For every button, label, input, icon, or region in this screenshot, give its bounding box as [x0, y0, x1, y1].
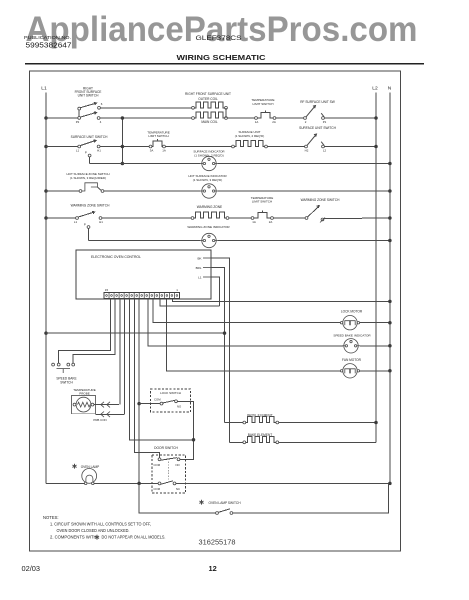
wire broil to L2: [279, 422, 376, 424]
svg-text:OUTER COIL: OUTER COIL: [198, 97, 218, 101]
svg-text:L1: L1: [74, 220, 78, 224]
svg-text:SPEED BAKE INDICATOR: SPEED BAKE INDICATOR: [333, 333, 371, 337]
wire lamp rail a: [46, 482, 86, 484]
svg-text:PROBE: PROBE: [79, 392, 90, 396]
schematic border: [30, 71, 401, 551]
svg-text:NC: NC: [176, 487, 180, 491]
svg-text:MAIN COIL: MAIN COIL: [201, 120, 218, 124]
wire pin4 to probe connector: [124, 299, 126, 415]
junction rail4-N: [388, 189, 392, 193]
bus L1 vertical wire: [45, 93, 47, 484]
switch oven lamp: [216, 512, 219, 515]
svg-text:H1: H1: [97, 148, 101, 152]
wire pin9 to speed bake indicator: [148, 299, 343, 346]
wire lock feed: [139, 403, 160, 405]
junction lamprail-pin7: [137, 482, 141, 486]
wire lamp rail b: [94, 482, 158, 484]
junction L1-rail5: [44, 216, 48, 220]
svg-text:COM: COM: [154, 397, 161, 401]
svg-text:RF SURFACE UNIT SW: RF SURFACE UNIT SW: [300, 100, 334, 104]
svg-text:L2: L2: [323, 148, 327, 152]
svg-text:DO NOT APPEAR ON ALL MODELS.: DO NOT APPEAR ON ALL MODELS.: [102, 534, 166, 539]
wire pin3 to probe: [119, 299, 121, 405]
wire pin6 to door switch COM: [134, 299, 159, 458]
lock switch box: [151, 389, 191, 412]
wire L1 output: [211, 277, 220, 306]
junction speedbake-N: [388, 344, 392, 348]
door switch link: [168, 462, 170, 481]
wire lamp switch row a: [139, 483, 216, 513]
indicator warming zone: [200, 240, 202, 242]
svg-text:1. CIRCUIT SHOWN WITH ALL CON: 1. CIRCUIT SHOWN WITH ALL CONTROLS SET T…: [50, 521, 151, 526]
wire pin7 to lock and lamp: [138, 299, 140, 514]
svg-text:(1 SHOWN, 3 REQ'D): (1 SHOWN, 3 REQ'D): [193, 178, 222, 182]
svg-text:WARMING ZONE INDICATOR: WARMING ZONE INDICATOR: [187, 225, 230, 229]
junction lamprail-N: [388, 482, 392, 486]
svg-text:LIMIT SWITCH: LIMIT SWITCH: [252, 199, 272, 203]
wire pin15 to N: [173, 299, 390, 302]
svg-text:2A: 2A: [269, 220, 273, 224]
svg-text:COM: COM: [154, 463, 161, 467]
junction L1-rail1: [44, 116, 48, 120]
svg-text:12: 12: [209, 564, 217, 573]
svg-text:P2: P2: [76, 120, 80, 124]
resistor probe: [73, 403, 76, 406]
wire rail2 e: [324, 146, 376, 148]
wire rail1 a: [46, 117, 79, 119]
probe housing: [72, 396, 96, 414]
wire rail1 d: [276, 117, 305, 119]
svg-text:316255178: 316255178: [199, 539, 236, 546]
svg-text:WARMING ZONE SWITCH: WARMING ZONE SWITCH: [71, 203, 111, 207]
svg-text:N: N: [388, 86, 392, 92]
wire rail5 b: [102, 217, 193, 219]
wire pin13 to fan motor: [167, 299, 342, 371]
bus N vertical wire: [389, 93, 391, 484]
switch lock: [160, 402, 163, 405]
wire probe out: [94, 404, 119, 406]
motor lock: [343, 316, 357, 330]
wire pin10 to lock motor: [153, 299, 341, 323]
svg-text:H1: H1: [99, 220, 103, 224]
svg-text:15: 15: [105, 288, 109, 292]
wire speed bake to N: [360, 345, 390, 347]
wire rail1 e: [324, 117, 376, 119]
wire rail2 b: [100, 146, 151, 148]
junction L1-midrail: [44, 331, 48, 335]
indicator speed bake: [342, 345, 344, 347]
connector strip P1: [104, 293, 180, 299]
svg-text:NOTES:: NOTES:: [43, 515, 59, 520]
wire BK output: [211, 258, 229, 442]
wire pole drop rail5: [88, 228, 90, 240]
title underline: [25, 63, 424, 65]
motor fan: [343, 364, 357, 378]
wire pin14 short row: [160, 299, 220, 306]
svg-text:OVEN DOOR CLOSED AND UNLOCKED.: OVEN DOOR CLOSED AND UNLOCKED.: [57, 528, 130, 533]
switch surface unit right: [305, 145, 308, 148]
switch warming zone right: [305, 217, 308, 220]
wire rail4 c: [218, 190, 390, 192]
wire indrow a: [89, 240, 201, 242]
svg-text:RIGHT FRONT SURFACE UNIT: RIGHT FRONT SURFACE UNIT: [185, 92, 231, 96]
thermal switch rail2: [149, 145, 152, 148]
junction fan-N: [388, 369, 392, 373]
svg-text:PRB CON: PRB CON: [93, 418, 106, 422]
wire rail1 c: [227, 117, 256, 119]
indicator hot surface: [200, 190, 202, 192]
wire BRL output: [211, 268, 225, 423]
junction lockmotor-N: [388, 321, 392, 325]
resistor bake element: [243, 441, 246, 444]
wire outer-coil branch: [100, 107, 193, 109]
junction tie-rail1: [121, 116, 125, 120]
wire fan motor to N: [359, 370, 390, 372]
junction pin15-N: [388, 300, 392, 304]
wire lamp switch row b: [233, 483, 389, 513]
svg-text:OVEN LAMP: OVEN LAMP: [81, 465, 100, 469]
svg-text:3A: 3A: [150, 148, 154, 152]
switch door upper: [158, 458, 161, 461]
svg-text:COM: COM: [154, 487, 161, 491]
svg-text:GLEF378CS: GLEF378CS: [196, 36, 242, 42]
resistor broil element: [243, 421, 246, 424]
label oven lamp: [74, 464, 76, 469]
svg-text:L2: L2: [372, 86, 378, 92]
svg-text:UNIT SWITCH: UNIT SWITCH: [78, 94, 100, 98]
wire indrow b: [218, 240, 390, 242]
wire rail5 a: [46, 217, 77, 219]
wire pin5 to door switch NO: [130, 299, 194, 460]
lamp oven: [82, 469, 97, 484]
junction broil-L2: [374, 421, 378, 425]
switch door lower: [158, 482, 161, 485]
label oven lamp switch: [201, 500, 203, 505]
svg-text:FAN MOTOR: FAN MOTOR: [342, 358, 362, 362]
switch surface unit left: [78, 145, 81, 148]
svg-text:LIMIT SWITCH: LIMIT SWITCH: [148, 134, 168, 138]
switch warming zone left: [76, 217, 79, 220]
svg-text:5995382647: 5995382647: [26, 41, 72, 50]
wire rail5 d: [273, 217, 306, 219]
wire lock motor to N: [359, 322, 390, 324]
svg-text:(1 SHOWN, 2 REQ'D): (1 SHOWN, 2 REQ'D): [235, 134, 264, 138]
svg-text:(1 SHOWN, 3 REQUIRED): (1 SHOWN, 3 REQUIRED): [70, 176, 106, 180]
svg-text:1A: 1A: [162, 148, 166, 152]
wire rail5 c: [229, 217, 253, 219]
junction rail1-L2: [374, 116, 378, 120]
svg-text:L1: L1: [41, 86, 47, 92]
wire pin1 to speed bake switch: [59, 299, 111, 364]
wire rail5 e: [324, 217, 390, 220]
svg-text:1A: 1A: [252, 220, 256, 224]
wire lamp rail c: [176, 482, 390, 484]
connector probe wire: [101, 402, 104, 408]
svg-text:SURFACE UNIT SWITCH: SURFACE UNIT SWITCH: [71, 135, 108, 139]
svg-text:P: P: [84, 222, 86, 226]
thermal switch rail5: [251, 217, 254, 220]
svg-text:1A: 1A: [255, 120, 259, 124]
junction indrow-N: [388, 239, 392, 243]
resistor outer coil: [192, 106, 195, 109]
wire bake to L2: [279, 441, 376, 443]
svg-text:L1: L1: [198, 275, 202, 279]
electronic oven control box: [76, 250, 211, 299]
wire rail1 b: [100, 117, 193, 119]
wire bake feed: [229, 441, 243, 443]
svg-text:2. COMPONENTS WITH: 2. COMPONENTS WITH: [50, 534, 97, 539]
wire rail4 b: [104, 190, 200, 192]
door switch box: [152, 455, 186, 493]
wire coil join: [225, 108, 227, 118]
wire rail4 a: [46, 190, 81, 192]
switch hot surface zone: [79, 190, 82, 193]
svg-text:LOCK SWITCH: LOCK SWITCH: [160, 391, 181, 395]
svg-text:ELECTRONIC OVEN CONTROL: ELECTRONIC OVEN CONTROL: [91, 255, 141, 259]
svg-text:P: P: [85, 151, 87, 155]
svg-text:OVEN LAMP SWITCH: OVEN LAMP SWITCH: [209, 501, 242, 505]
junction midrail-BRL: [223, 331, 227, 335]
wire lock NO out: [177, 401, 193, 440]
resistor warming zone: [191, 217, 194, 220]
wire probe connector out: [96, 413, 124, 415]
switch right front surface unit (2 pole): [78, 107, 81, 110]
svg-text:AppliancePartsPros.com: AppliancePartsPros.com: [26, 10, 418, 49]
junction rail5-N: [388, 216, 392, 220]
junction tie-rail2: [121, 145, 125, 149]
wire pole drop rail2: [89, 157, 91, 164]
wire rail3 a: [90, 163, 200, 165]
junction L1-rail2: [44, 145, 48, 149]
indicator surface: [200, 163, 202, 165]
switch RF surface unit: [304, 117, 307, 120]
svg-text:H2: H2: [305, 148, 309, 152]
wire rail3 b: [218, 163, 390, 165]
svg-text:P1: P1: [323, 120, 327, 124]
bus L2 vertical wire: [375, 93, 377, 443]
junction L1-rail4: [44, 189, 48, 193]
switch speed bake: [52, 363, 55, 366]
svg-text:BRL: BRL: [196, 266, 202, 270]
junction tie-rail3: [121, 162, 125, 166]
resistor surface unit: [232, 145, 235, 148]
svg-text:WARMING ZONE SWITCH: WARMING ZONE SWITCH: [301, 198, 341, 202]
junction lockout-doorbracket: [192, 438, 196, 442]
wire pin2 to speed bake switch: [73, 299, 115, 364]
svg-text:WIRING SCHEMATIC: WIRING SCHEMATIC: [177, 55, 266, 62]
wire rail2 a: [46, 146, 79, 148]
svg-text:02/03: 02/03: [22, 564, 41, 573]
wire rail2 c: [165, 146, 233, 148]
svg-text:SURFACE UNIT SWITCH: SURFACE UNIT SWITCH: [299, 126, 336, 130]
thermal switch rail1: [255, 117, 258, 120]
junction rail2-L2: [374, 145, 378, 149]
svg-text:BK: BK: [197, 256, 201, 260]
resistor main coil: [192, 117, 195, 120]
wire rail2 d: [267, 146, 306, 148]
svg-text:DOOR SWITCH: DOOR SWITCH: [154, 446, 178, 450]
svg-text:LIMIT SWITCH: LIMIT SWITCH: [253, 102, 274, 106]
svg-text:L1: L1: [76, 148, 80, 152]
connector PRB CON: [101, 412, 104, 418]
wire L1 midrail: [46, 332, 225, 334]
wire tie rail1-rail3: [121, 118, 123, 164]
junction lock feed: [137, 402, 141, 406]
svg-text:WARMING ZONE: WARMING ZONE: [197, 205, 222, 209]
svg-text:SWITCH: SWITCH: [60, 381, 73, 385]
svg-text:2A: 2A: [272, 120, 276, 124]
svg-text:LOCK MOTOR: LOCK MOTOR: [341, 310, 363, 314]
wire broil feed: [225, 422, 244, 424]
junction rail3-N: [388, 162, 392, 166]
